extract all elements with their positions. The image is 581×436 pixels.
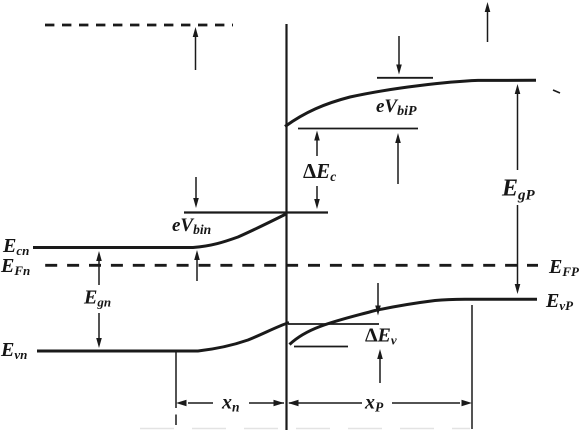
svg-text:EgP: EgP	[501, 176, 536, 204]
svg-text:xn: xn	[221, 392, 240, 415]
svg-text:Evn: Evn	[0, 339, 27, 362]
svg-text:EvP: EvP	[545, 290, 574, 313]
svg-text:ΔEv: ΔEv	[365, 325, 397, 348]
svg-text:Egn: Egn	[83, 287, 111, 310]
svg-text:EFn: EFn	[0, 255, 30, 278]
svg-text:eVbin: eVbin	[172, 215, 211, 237]
svg-text:eVbiP: eVbiP	[376, 96, 417, 119]
svg-text:EFP: EFP	[548, 256, 580, 279]
svg-text:xP: xP	[364, 392, 384, 415]
svg-text:ΔEc: ΔEc	[303, 159, 336, 184]
